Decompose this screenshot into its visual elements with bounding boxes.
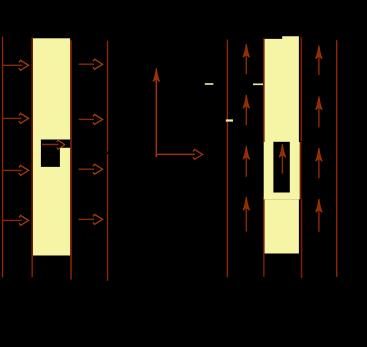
right outer field line <box>107 41 108 152</box>
right conductor strip: left border lower <box>263 197 265 276</box>
E arrow row1 left <box>3 64 22 66</box>
E arrow row4 right <box>79 218 94 220</box>
E arrow row2 left <box>3 117 22 119</box>
right conductor strip: yellow body lower <box>265 199 299 253</box>
left conductor strip: yellow body <box>33 38 70 255</box>
current arrow R4 <box>316 199 323 232</box>
drift-velocity arrow inside black element <box>42 144 59 146</box>
E arrow row3 right <box>79 168 94 170</box>
left conductor strip: right border <box>70 40 72 279</box>
black element (L-shape) inside left strip <box>41 140 70 167</box>
y axis arrowhead <box>153 68 160 81</box>
current arrow R1 <box>316 45 323 75</box>
right panel: outer right line <box>336 40 337 277</box>
E arrowhead row4 left <box>19 215 29 225</box>
black element inside right strip <box>273 142 289 193</box>
E arrow row1 right <box>79 63 94 65</box>
current arrows column left (x=246.3) <box>243 44 250 232</box>
right conductor strip: left border upper <box>263 38 265 142</box>
right conductor strip: yellow mid section (slightly wider, borderless left) <box>264 142 300 199</box>
current arrow L3 <box>243 146 250 177</box>
current arrow L2 <box>243 95 250 125</box>
E-field arrows, left of strip (4 rows) <box>3 65 22 220</box>
right outer field line lower segment <box>107 154 108 281</box>
drift arrow inside right black element <box>279 144 286 174</box>
E arrowhead row2 left <box>19 113 29 123</box>
left conductor strip: left border <box>31 37 33 277</box>
right panel: outer left line <box>227 40 228 278</box>
right conductor strip: yellow body upper (with top step) <box>265 36 299 142</box>
E arrowhead row3 left <box>19 165 29 175</box>
minus dash C <box>226 119 233 121</box>
current arrows column right (x=318.9) <box>316 45 323 231</box>
E arrow row4 left <box>3 219 22 221</box>
minus dash B <box>253 84 263 86</box>
x axis arrowhead <box>193 149 203 159</box>
current arrow R3 <box>316 148 323 178</box>
current arrow L4 <box>243 197 250 232</box>
E arrow row3 left <box>3 169 22 171</box>
E arrowhead row2 right <box>93 114 103 124</box>
E arrow row2 right <box>79 118 94 120</box>
y axis line <box>155 78 157 157</box>
x axis line <box>156 153 195 155</box>
current arrow R2 <box>316 96 323 127</box>
left outer field line <box>2 37 3 278</box>
right conductor strip: mid-section right edge line <box>300 142 302 199</box>
right conductor strip: right border lower <box>301 199 303 278</box>
E arrowhead row1 left <box>19 60 29 70</box>
right conductor strip: right border upper (black channel between fill and border) <box>301 37 303 141</box>
E arrowhead row3 right <box>93 164 103 174</box>
E arrowhead row4 right <box>93 214 103 224</box>
minus dash A <box>205 83 214 85</box>
E arrowhead row1 right <box>93 59 103 69</box>
E-field arrows, right of strip (4 rows) <box>79 64 94 219</box>
current arrow L1 <box>243 44 250 74</box>
